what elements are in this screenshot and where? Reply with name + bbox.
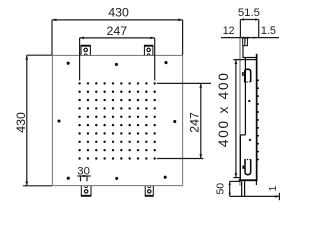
side view: bottom bar (239, 179, 258, 181)
screw dot bottom-right (164, 176, 167, 179)
dimension 430 left (14, 55, 52, 186)
top bracket right (front view) (144, 46, 153, 56)
spray hole grid 10x10 (78, 82, 80, 84)
dimension 1 (bottom lip) (230, 185, 280, 200)
side view: step (240, 134, 245, 136)
svg-text:400 x 400: 400 x 400 (216, 71, 231, 147)
side view: top mounting tab (243, 38, 248, 46)
svg-text:430: 430 (108, 6, 129, 20)
svg-text:247: 247 (188, 112, 202, 133)
dimension 12 and 1.5 (221, 25, 279, 45)
svg-text:50: 50 (216, 183, 227, 195)
svg-text:51.5: 51.5 (238, 7, 260, 19)
svg-text:30: 30 (77, 165, 90, 177)
side view: right hook below bar (255, 181, 257, 185)
svg-text:12: 12 (223, 25, 235, 37)
side view: internal dots (248, 100, 250, 102)
side view: bottom bracket (U) (245, 159, 251, 174)
side view: ceiling plane line (gray) (239, 38, 241, 186)
plate outline (front view 430x430 panel) (52, 55, 182, 185)
side view: bottom lip (241, 181, 243, 196)
screw dot top-right (164, 61, 167, 64)
svg-text:430: 430 (14, 112, 28, 133)
bottom bracket right (front view) (145, 186, 154, 196)
top bracket left (front view) (81, 46, 91, 56)
dimension 400 x 400 (216, 60, 257, 178)
side view: top shoulder (243, 57, 258, 59)
side view: right face (plate edge) (256, 54, 258, 181)
side view: top bracket (arch) (245, 69, 251, 82)
screw dot top-mid (115, 63, 118, 66)
dimension 50 (216, 181, 241, 196)
side view: neck line (242, 46, 244, 58)
bottom bracket left (front view) (81, 186, 92, 196)
screw dot top-left (67, 62, 70, 65)
dimension 30 (bracket offset) (77, 165, 91, 181)
side view: left edge lower (239, 135, 241, 180)
side view: left edge upper (244, 58, 246, 135)
dimension 430 top (52, 6, 183, 55)
svg-text:1.5: 1.5 (261, 25, 276, 37)
screw dot bottom-left (67, 177, 70, 180)
dimension 51.5 (238, 7, 260, 38)
svg-text:1: 1 (268, 185, 279, 191)
screw dot mid-left (57, 119, 60, 122)
screw dot bottom-mid (115, 177, 118, 180)
dimension 247 right (157, 83, 211, 158)
dimension 247 top (80, 24, 155, 80)
svg-text:247: 247 (106, 24, 127, 38)
side view: nozzle ticks (258, 80, 259, 82)
screw dot mid-right (173, 120, 176, 123)
